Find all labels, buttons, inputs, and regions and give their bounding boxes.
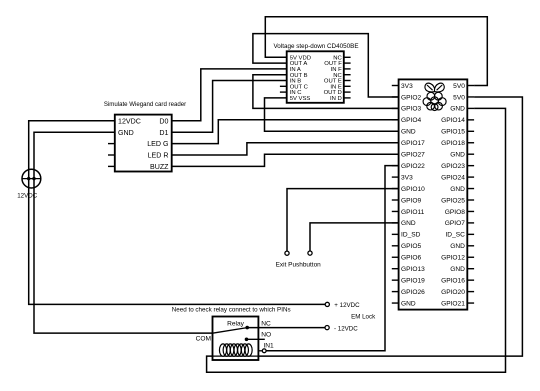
- svg-text:GPIO26: GPIO26: [401, 289, 425, 296]
- wire relay IN1 to RPi GPIO22: [266, 166, 399, 351]
- svg-text:Simulate Wiegand card reader: Simulate Wiegand card reader: [104, 101, 186, 108]
- relay pin labels: [196, 321, 274, 350]
- wire pushbutton terminal2 to RPi GND pin25: [310, 223, 399, 251]
- relay coil L1: [213, 344, 259, 356]
- wire CD4050 OUT B to RPi GPIO3: [253, 75, 399, 109]
- wire relay box to IN1 terminal: [258, 350, 262, 352]
- EM lock terminal -12VDC: [325, 325, 358, 332]
- svg-text:GPIO9: GPIO9: [401, 197, 421, 204]
- relay K1: [213, 317, 259, 361]
- Raspberry Pi logo: [423, 83, 446, 110]
- svg-text:GPIO13: GPIO13: [401, 266, 425, 273]
- svg-text:5V0: 5V0: [453, 83, 465, 90]
- svg-text:GPIO22: GPIO22: [401, 163, 425, 170]
- svg-text:Need to check relay connect to: Need to check relay connect to which PIN…: [172, 306, 291, 313]
- wire Wiegand 12VDC to EM lock +12VDC via supply: [29, 121, 326, 305]
- svg-text:GPIO15: GPIO15: [441, 129, 465, 136]
- svg-text:GPIO2: GPIO2: [401, 94, 421, 101]
- svg-text:GND: GND: [118, 129, 134, 137]
- svg-text:GND: GND: [401, 129, 416, 136]
- svg-text:GPIO5: GPIO5: [401, 243, 421, 250]
- EM lock terminal +12VDC: [325, 302, 360, 309]
- svg-text:GPIO12: GPIO12: [441, 255, 465, 262]
- svg-text:GPIO20: GPIO20: [441, 289, 465, 296]
- svg-text:GPIO6: GPIO6: [401, 255, 421, 262]
- wire CD4050 5V VDD to RPi 5V0 pin1: [265, 17, 487, 86]
- svg-text:GPIO10: GPIO10: [401, 186, 425, 193]
- svg-text:D0: D0: [159, 117, 168, 125]
- relay IN1 terminal: [262, 349, 266, 353]
- wire Wiegand D0 to CD4050 IN A: [172, 69, 287, 121]
- svg-text:5V0: 5V0: [453, 94, 465, 101]
- svg-text:Exit Pushbutton: Exit Pushbutton: [276, 261, 322, 268]
- card reader U2 simulate Wiegand: [104, 101, 186, 172]
- wire Wiegand GND to relay COM via supply: [34, 132, 213, 333]
- svg-text:GPIO21: GPIO21: [441, 300, 465, 307]
- exit pushbutton S1 terminal 1: [285, 251, 289, 255]
- svg-text:GND: GND: [401, 220, 416, 227]
- wire RPi 5V0 pin2 to relay coil right: [258, 97, 522, 356]
- power source PS1 12VDC: [17, 169, 41, 199]
- svg-text:GPIO14: GPIO14: [441, 117, 465, 124]
- svg-text:NO: NO: [261, 332, 271, 339]
- svg-text:Relay: Relay: [227, 320, 245, 327]
- svg-text:- 12VDC: - 12VDC: [334, 325, 358, 332]
- wire CD4050 OUT A to RPi GPIO2: [253, 34, 399, 97]
- svg-text:GND: GND: [450, 266, 465, 273]
- svg-text:GND: GND: [450, 243, 465, 250]
- svg-text:GPIO19: GPIO19: [401, 277, 425, 284]
- relay switch arm COM-NC: [213, 326, 250, 333]
- exit pushbutton S1 terminal 2: [308, 251, 312, 255]
- svg-text:GPIO11: GPIO11: [401, 209, 425, 216]
- svg-text:COM: COM: [196, 336, 211, 343]
- svg-text:GPIO23: GPIO23: [441, 163, 465, 170]
- wire pushbutton terminal1 to RPi GPIO10: [287, 189, 399, 252]
- IC U1 CD4050BE voltage step-down: [273, 43, 358, 103]
- Raspberry Pi GPIO header J1: [392, 79, 474, 309]
- svg-text:GND: GND: [450, 106, 465, 113]
- svg-text:NC: NC: [261, 321, 271, 328]
- wire Wiegand LED G to RPi GPIO4: [172, 120, 399, 144]
- svg-text:GPIO3: GPIO3: [401, 106, 421, 113]
- wire CD4050 5V VSS to RPi GND pin5: [265, 98, 399, 131]
- svg-text:LED G: LED G: [147, 140, 168, 148]
- svg-text:3V3: 3V3: [401, 83, 413, 90]
- wire Wiegand D1 to CD4050 IN B: [172, 81, 287, 133]
- svg-text:D1: D1: [159, 129, 168, 137]
- svg-text:GPIO18: GPIO18: [441, 140, 465, 147]
- wire RPi GND pin6 to relay coil left: [207, 108, 506, 372]
- svg-text:BUZZ: BUZZ: [150, 163, 169, 171]
- svg-text:GPIO16: GPIO16: [441, 277, 465, 284]
- wire relay NC to EM lock -12VDC: [247, 327, 325, 329]
- svg-text:GND: GND: [450, 186, 465, 193]
- svg-text:GND: GND: [401, 300, 416, 307]
- svg-text:EM Lock: EM Lock: [351, 314, 376, 321]
- svg-text:5V VSS: 5V VSS: [290, 96, 311, 102]
- svg-text:GPIO24: GPIO24: [441, 174, 465, 181]
- relay NO contact: [245, 338, 265, 342]
- svg-text:GPIO7: GPIO7: [445, 220, 465, 227]
- svg-text:GPIO17: GPIO17: [401, 140, 425, 147]
- svg-text:GPIO25: GPIO25: [441, 197, 465, 204]
- svg-text:GND: GND: [450, 152, 465, 159]
- svg-text:+ 12VDC: + 12VDC: [334, 302, 360, 309]
- svg-text:GPIO27: GPIO27: [401, 152, 425, 159]
- svg-text:GPIO8: GPIO8: [445, 209, 465, 216]
- svg-text:LED R: LED R: [148, 152, 169, 160]
- svg-text:Voltage step-down CD4050BE: Voltage step-down CD4050BE: [273, 43, 358, 50]
- svg-text:3V3: 3V3: [401, 174, 413, 181]
- wire Wiegand BUZZ to RPi GPIO27: [172, 154, 399, 166]
- svg-text:ID_SC: ID_SC: [445, 232, 465, 239]
- svg-text:GPIO4: GPIO4: [401, 117, 421, 124]
- wire Wiegand LED R to RPi GPIO17: [172, 143, 399, 155]
- svg-text:ID_SD: ID_SD: [401, 232, 421, 239]
- svg-text:IN D: IN D: [330, 96, 342, 102]
- svg-text:12VDC: 12VDC: [118, 117, 141, 125]
